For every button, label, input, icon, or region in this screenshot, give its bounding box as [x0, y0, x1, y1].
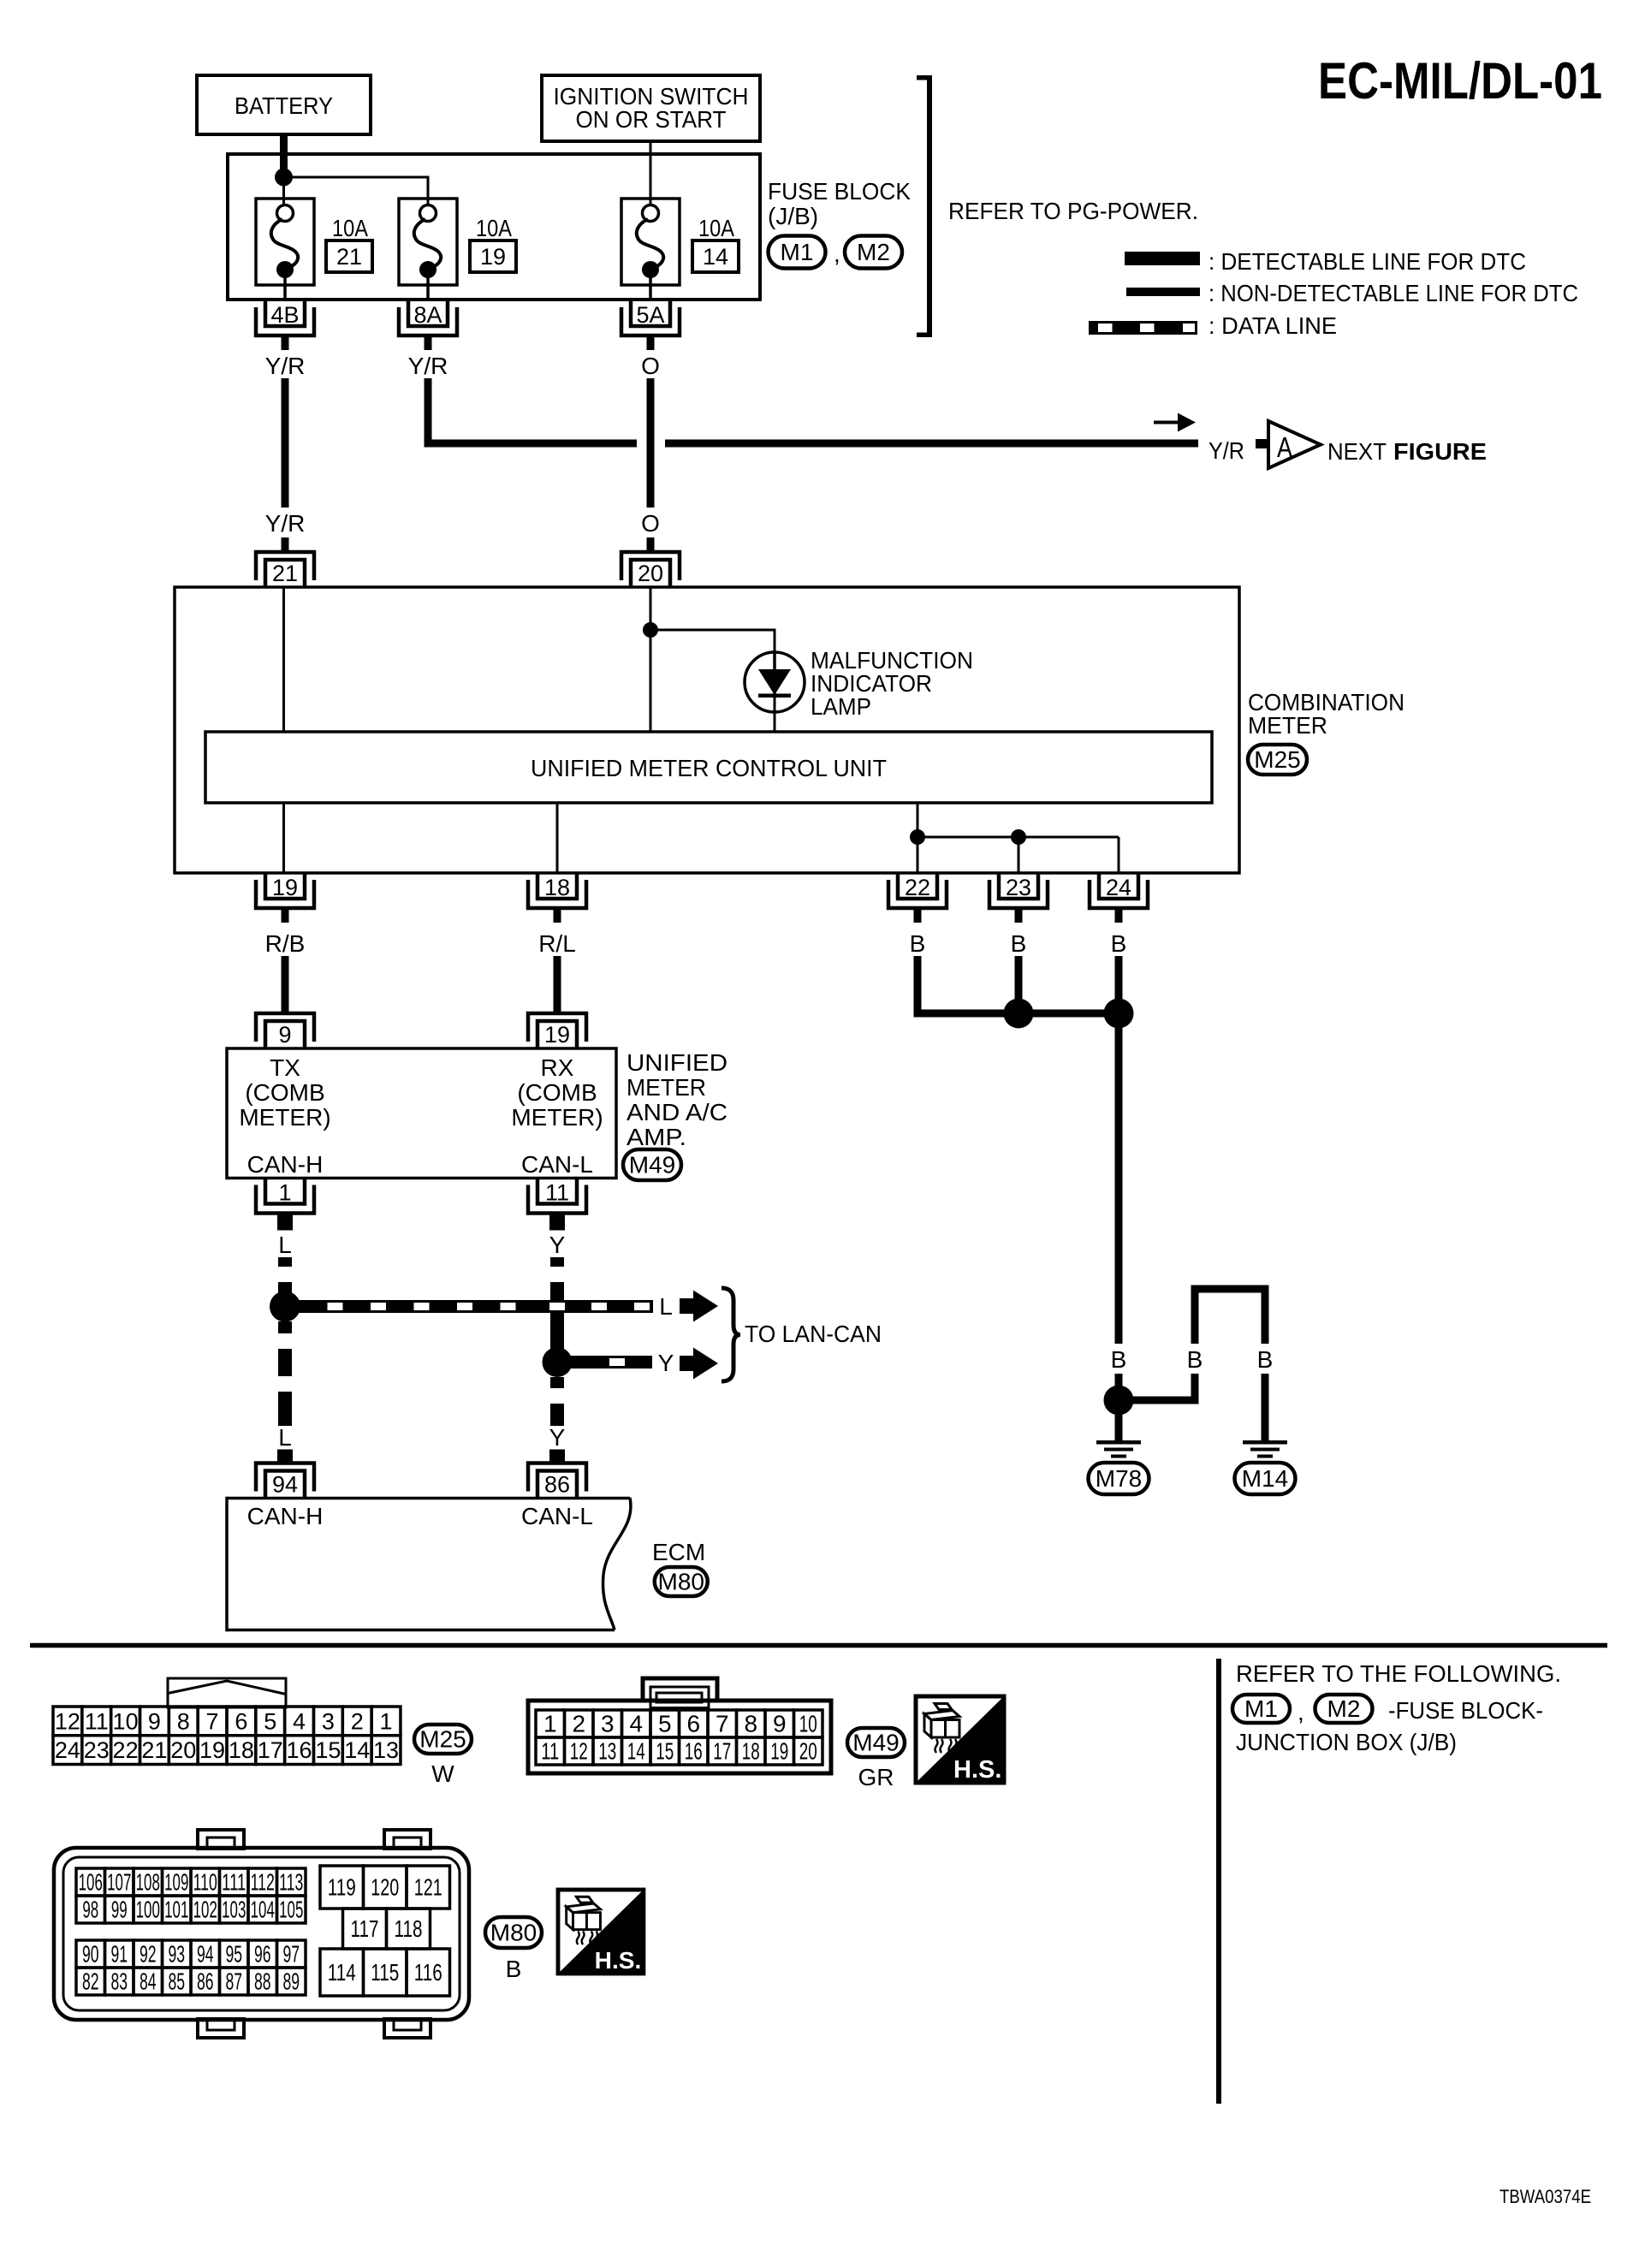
svg-text:86: 86: [197, 1968, 214, 1995]
svg-text:11: 11: [85, 1708, 109, 1734]
svg-text:M80: M80: [490, 1920, 537, 1946]
svg-text:9: 9: [278, 1022, 291, 1048]
svg-text:R/B: R/B: [265, 930, 306, 957]
svg-text:METER): METER): [239, 1104, 330, 1131]
svg-text:92: 92: [140, 1941, 157, 1968]
svg-text:93: 93: [168, 1941, 185, 1968]
svg-text:97: 97: [282, 1941, 300, 1968]
svg-text:LAMP: LAMP: [811, 693, 871, 720]
svg-text:102: 102: [193, 1897, 217, 1923]
svg-text:104: 104: [251, 1897, 275, 1923]
svg-text:15: 15: [315, 1737, 341, 1763]
svg-text:UNIFIED: UNIFIED: [627, 1049, 727, 1076]
svg-text:14: 14: [344, 1737, 370, 1763]
svg-text:7: 7: [206, 1708, 219, 1734]
svg-text:88: 88: [254, 1968, 271, 1995]
svg-text:M14: M14: [1242, 1465, 1288, 1492]
svg-text:9: 9: [148, 1708, 161, 1734]
svg-text:METER: METER: [627, 1074, 706, 1101]
svg-text:6: 6: [686, 1711, 700, 1737]
svg-text:8A: 8A: [413, 302, 442, 328]
svg-text:110: 110: [193, 1869, 217, 1896]
svg-text:B: B: [1111, 930, 1127, 957]
svg-text:10A: 10A: [698, 215, 734, 241]
svg-text:5: 5: [658, 1711, 672, 1737]
svg-text:21: 21: [141, 1737, 167, 1763]
svg-text:M80: M80: [658, 1569, 704, 1595]
svg-text:22: 22: [905, 875, 930, 900]
svg-text:19: 19: [544, 1022, 570, 1048]
svg-text:REFER TO PG-POWER.: REFER TO PG-POWER.: [948, 198, 1198, 224]
svg-text:AMP.: AMP.: [627, 1124, 686, 1150]
svg-text:CAN-H: CAN-H: [247, 1151, 324, 1178]
svg-text:(COMB: (COMB: [517, 1079, 597, 1106]
svg-text:90: 90: [82, 1941, 99, 1968]
svg-text:Y/R: Y/R: [265, 510, 306, 537]
svg-text:2: 2: [351, 1708, 364, 1734]
svg-text:4B: 4B: [270, 302, 299, 328]
svg-text:W: W: [431, 1760, 454, 1787]
svg-text:TO LAN-CAN: TO LAN-CAN: [745, 1321, 882, 1347]
svg-text:10: 10: [799, 1711, 817, 1737]
svg-text:: DETECTABLE LINE FOR DTC: : DETECTABLE LINE FOR DTC: [1208, 248, 1526, 275]
svg-text:5A: 5A: [636, 302, 664, 328]
svg-text:10A: 10A: [332, 215, 368, 241]
svg-text:JUNCTION BOX (J/B): JUNCTION BOX (J/B): [1236, 1729, 1457, 1755]
svg-text:L: L: [278, 1424, 292, 1451]
svg-text:19: 19: [272, 875, 298, 900]
svg-text:O: O: [641, 353, 660, 379]
svg-text:12: 12: [570, 1738, 588, 1765]
svg-text:,: ,: [834, 240, 840, 267]
svg-text:15: 15: [656, 1738, 674, 1765]
svg-text:116: 116: [414, 1959, 442, 1986]
svg-text:89: 89: [282, 1968, 300, 1995]
svg-text:(COMB: (COMB: [245, 1079, 324, 1106]
svg-text:L: L: [659, 1293, 673, 1320]
svg-text:REFER TO THE FOLLOWING.: REFER TO THE FOLLOWING.: [1236, 1660, 1561, 1687]
svg-text:Y: Y: [658, 1350, 674, 1376]
svg-text:24: 24: [1106, 875, 1131, 900]
svg-text:85: 85: [168, 1968, 185, 1995]
svg-text:AND A/C: AND A/C: [627, 1099, 727, 1125]
svg-text:101: 101: [164, 1897, 188, 1923]
svg-text:B: B: [506, 1956, 522, 1982]
svg-text:3: 3: [601, 1711, 615, 1737]
svg-text:20: 20: [170, 1737, 196, 1763]
svg-text:96: 96: [254, 1941, 271, 1968]
svg-text:18: 18: [544, 875, 570, 900]
svg-text:14: 14: [703, 244, 728, 270]
svg-text:L: L: [278, 1232, 292, 1258]
svg-text:ECM: ECM: [652, 1539, 705, 1565]
svg-text:Y: Y: [549, 1424, 566, 1451]
svg-text:22: 22: [113, 1737, 139, 1763]
svg-text:M25: M25: [419, 1726, 466, 1753]
svg-text:A: A: [1277, 431, 1292, 463]
svg-text:5: 5: [264, 1708, 276, 1734]
svg-text:R/L: R/L: [538, 930, 576, 957]
svg-text:100: 100: [136, 1897, 160, 1923]
svg-text:ON OR START: ON OR START: [576, 106, 727, 133]
svg-text:NEXT: NEXT: [1327, 438, 1387, 465]
svg-text:107: 107: [107, 1869, 131, 1896]
svg-text:8: 8: [177, 1708, 190, 1734]
svg-text:4: 4: [629, 1711, 643, 1737]
svg-text:RX: RX: [541, 1054, 574, 1081]
svg-text:3: 3: [322, 1708, 335, 1734]
svg-text:18: 18: [229, 1737, 254, 1763]
svg-text:M1: M1: [1244, 1695, 1278, 1722]
svg-text:82: 82: [82, 1968, 99, 1995]
svg-text:GR: GR: [858, 1764, 894, 1790]
svg-text:M1: M1: [781, 239, 814, 265]
svg-text:99: 99: [111, 1897, 128, 1923]
svg-text:94: 94: [197, 1941, 214, 1968]
svg-text:118: 118: [395, 1915, 423, 1942]
svg-text:23: 23: [84, 1737, 110, 1763]
svg-text:17: 17: [713, 1738, 731, 1765]
svg-text:24: 24: [55, 1737, 80, 1763]
svg-text:2: 2: [572, 1711, 585, 1737]
svg-text:B: B: [910, 930, 926, 957]
svg-text:B: B: [1111, 1346, 1127, 1373]
svg-text:106: 106: [79, 1869, 103, 1896]
svg-text:16: 16: [685, 1738, 703, 1765]
svg-text:10: 10: [113, 1708, 139, 1734]
svg-text:6: 6: [235, 1708, 247, 1734]
svg-text:19: 19: [199, 1737, 225, 1763]
svg-text:103: 103: [222, 1897, 246, 1923]
svg-text:87: 87: [225, 1968, 242, 1995]
svg-text:20: 20: [638, 561, 663, 586]
svg-text:114: 114: [328, 1959, 356, 1986]
svg-text:Y/R: Y/R: [1208, 437, 1244, 464]
svg-text:M78: M78: [1096, 1465, 1142, 1492]
svg-text:FIGURE: FIGURE: [1393, 438, 1487, 465]
svg-text:: DATA LINE: : DATA LINE: [1208, 312, 1337, 339]
svg-text:CAN-L: CAN-L: [521, 1151, 593, 1178]
svg-text:86: 86: [544, 1472, 570, 1498]
svg-text:23: 23: [1006, 875, 1031, 900]
svg-text:11: 11: [541, 1738, 559, 1765]
svg-text:B: B: [1011, 930, 1027, 957]
svg-text:M2: M2: [857, 239, 890, 265]
svg-text:M25: M25: [1254, 746, 1300, 773]
svg-text:9: 9: [773, 1711, 787, 1737]
svg-text:UNIFIED METER CONTROL UNIT: UNIFIED METER CONTROL UNIT: [531, 755, 887, 781]
svg-text:CAN-H: CAN-H: [247, 1503, 324, 1529]
svg-text:117: 117: [351, 1915, 379, 1942]
svg-text:121: 121: [414, 1874, 442, 1901]
svg-text:TBWA0374E: TBWA0374E: [1499, 2186, 1591, 2207]
svg-text:M49: M49: [852, 1730, 899, 1756]
svg-text:115: 115: [371, 1959, 399, 1986]
svg-text:16: 16: [287, 1737, 312, 1763]
svg-text:METER): METER): [511, 1104, 603, 1131]
svg-text:98: 98: [82, 1897, 98, 1923]
svg-text:M49: M49: [629, 1152, 675, 1179]
svg-text:CAN-L: CAN-L: [521, 1503, 593, 1529]
svg-text:10A: 10A: [476, 215, 512, 241]
svg-text:83: 83: [110, 1968, 128, 1995]
svg-text:18: 18: [742, 1738, 760, 1765]
svg-text:EC-MIL/DL-01: EC-MIL/DL-01: [1318, 52, 1602, 110]
svg-text:94: 94: [272, 1472, 298, 1498]
svg-text:119: 119: [328, 1874, 356, 1901]
svg-text:BATTERY: BATTERY: [235, 92, 333, 119]
svg-text:120: 120: [371, 1874, 399, 1901]
svg-text:13: 13: [598, 1738, 616, 1765]
svg-text:1: 1: [543, 1711, 557, 1737]
svg-text:95: 95: [225, 1941, 242, 1968]
svg-text:13: 13: [373, 1737, 399, 1763]
svg-text:M2: M2: [1327, 1695, 1361, 1722]
svg-text:Y: Y: [549, 1232, 566, 1258]
svg-text:12: 12: [55, 1708, 80, 1734]
svg-text:108: 108: [136, 1869, 160, 1896]
svg-text:21: 21: [336, 244, 362, 270]
svg-text:: NON-DETECTABLE LINE FOR DTC: : NON-DETECTABLE LINE FOR DTC: [1208, 280, 1578, 306]
svg-text:B: B: [1187, 1346, 1203, 1373]
svg-text:O: O: [641, 510, 660, 537]
svg-text:84: 84: [140, 1968, 157, 1995]
svg-text:FUSE BLOCK: FUSE BLOCK: [768, 178, 911, 205]
svg-text:17: 17: [258, 1737, 283, 1763]
svg-text:105: 105: [279, 1897, 303, 1923]
svg-text:,: ,: [1298, 1699, 1304, 1725]
svg-text:4: 4: [293, 1708, 306, 1734]
svg-text:(J/B): (J/B): [768, 203, 818, 229]
svg-text:B: B: [1257, 1346, 1274, 1373]
svg-text:METER: METER: [1248, 712, 1327, 739]
svg-text:19: 19: [770, 1738, 788, 1765]
svg-text:20: 20: [799, 1738, 817, 1765]
svg-text:21: 21: [272, 561, 298, 586]
svg-text:TX: TX: [270, 1054, 300, 1081]
svg-text:111: 111: [222, 1869, 246, 1896]
svg-text:113: 113: [279, 1869, 303, 1896]
svg-text:Y/R: Y/R: [408, 353, 448, 379]
svg-text:14: 14: [627, 1738, 645, 1765]
svg-text:109: 109: [164, 1869, 188, 1896]
svg-text:19: 19: [480, 244, 506, 270]
svg-text:1: 1: [380, 1708, 393, 1734]
svg-text:8: 8: [744, 1711, 757, 1737]
svg-text:Y/R: Y/R: [265, 353, 306, 379]
svg-text:112: 112: [251, 1869, 275, 1896]
svg-text:-FUSE BLOCK-: -FUSE BLOCK-: [1388, 1697, 1543, 1724]
svg-text:11: 11: [545, 1180, 569, 1206]
svg-text:1: 1: [278, 1180, 291, 1206]
svg-text:91: 91: [110, 1941, 128, 1968]
svg-text:7: 7: [716, 1711, 729, 1737]
